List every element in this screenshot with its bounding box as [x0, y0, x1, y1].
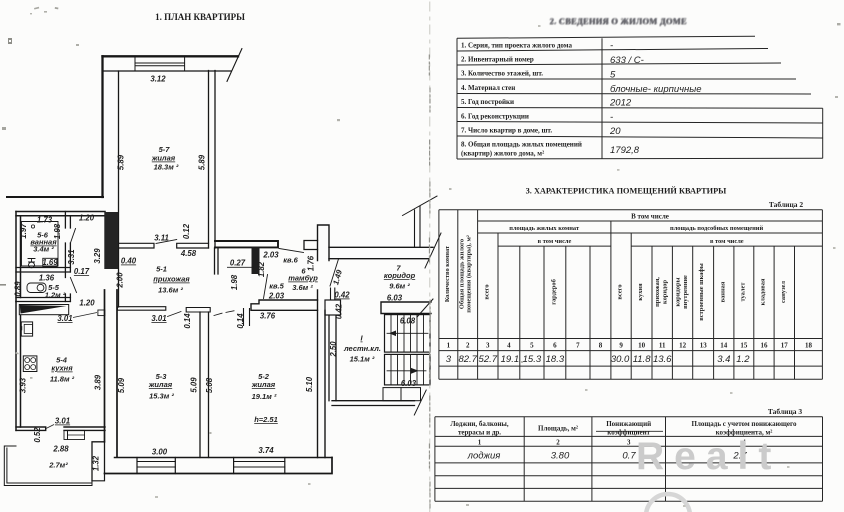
svg-text:кухня: кухня — [637, 283, 644, 301]
svg-text:1.2: 1.2 — [736, 354, 750, 365]
svg-text:2. Инвентарный номер: 2. Инвентарный номер — [461, 56, 534, 64]
svg-text:2. СВЕДЕНИЯ О ЖИЛОМ ДОМЕ: 2. СВЕДЕНИЯ О ЖИЛОМ ДОМЕ — [550, 17, 687, 26]
svg-text:(квартир) жилого дома, м²: (квартир) жилого дома, м² — [461, 150, 544, 158]
svg-text:7. Число квартир в доме, шт.: 7. Число квартир в доме, шт. — [461, 127, 552, 135]
svg-text:52.7: 52.7 — [479, 354, 498, 365]
bathroom block bottom wall — [16, 298, 70, 302]
svg-text:19.1: 19.1 — [501, 354, 520, 365]
svg-text:19.1м ²: 19.1м ² — [252, 392, 277, 401]
svg-text:2.7м²: 2.7м² — [48, 461, 68, 470]
svg-text:2: 2 — [556, 438, 560, 446]
svg-text:h=2.51: h=2.51 — [254, 415, 278, 424]
svg-text:5.09: 5.09 — [190, 377, 199, 393]
svg-text:6: 6 — [553, 342, 557, 350]
svg-text:гардероб: гардероб — [551, 279, 558, 305]
svg-text:14: 14 — [720, 342, 728, 350]
svg-text:1.20: 1.20 — [79, 299, 95, 308]
door knob circle bathroom — [31, 225, 34, 228]
svg-text:-: - — [610, 41, 613, 52]
svg-text:3.31: 3.31 — [67, 249, 76, 264]
svg-text:Площадь, м²: Площадь, м² — [538, 425, 578, 433]
svg-text:1.76: 1.76 — [307, 255, 316, 271]
balcony door threshold — [64, 430, 68, 439]
svg-text:0.40: 0.40 — [121, 257, 137, 266]
svg-text:туалет: туалет — [740, 282, 747, 302]
wall room 5-7 right (double) — [209, 71, 216, 249]
kitchen left wall — [16, 302, 21, 431]
svg-text:Таблица 2: Таблица 2 — [769, 200, 804, 209]
room 5-2 right wall — [318, 290, 326, 458]
svg-text:2.03: 2.03 — [268, 292, 285, 301]
hall bottom wall bar — [117, 307, 165, 311]
svg-text:6.08: 6.08 — [400, 317, 416, 326]
svg-text:2.50: 2.50 — [329, 341, 338, 358]
svg-text:11.8м ²: 11.8м ² — [50, 375, 75, 384]
bathroom right wall with door gaps — [65, 212, 70, 302]
staircase top wall band — [381, 302, 431, 314]
svg-text:5.89: 5.89 — [117, 154, 126, 170]
main bottom wall inner line — [115, 457, 333, 459]
svg-text:6.03: 6.03 — [387, 294, 403, 303]
stair flight 1 — [385, 315, 431, 353]
scan fold line — [429, 2, 431, 512]
svg-text:1.32: 1.32 — [92, 455, 101, 471]
svg-text:3.80: 3.80 — [551, 451, 570, 462]
table3 vertical lines — [434, 417, 436, 501]
kitchen stove — [23, 356, 37, 372]
svg-text:15.3: 15.3 — [523, 354, 542, 365]
svg-text:6. Год реконструкции: 6. Год реконструкции — [461, 113, 529, 121]
wall room 5-7 bottom with door gap — [119, 243, 209, 248]
svg-text:площадь жилых комнат: площадь жилых комнат — [509, 225, 580, 232]
svg-text:2.03: 2.03 — [262, 251, 279, 260]
door leaf wc 5-5 — [70, 278, 76, 293]
svg-text:1. Серия, тип проекта жилого д: 1. Серия, тип проекта жилого дома — [461, 42, 572, 50]
wall room 5-7 top outer — [103, 55, 239, 57]
svg-text:3.4м ²: 3.4м ² — [33, 245, 54, 254]
svg-text:прихожая,: прихожая, — [654, 277, 661, 307]
svg-text:помещения (квартиры), м²: помещения (квартиры), м² — [466, 235, 473, 313]
svg-text:15.1м ²: 15.1м ² — [350, 355, 375, 364]
break line staircase bottom right — [414, 390, 426, 415]
vent shaft black wedge — [19, 305, 68, 315]
door leader 5-3 — [168, 312, 182, 317]
svg-text:15.3м ²: 15.3м ² — [149, 392, 174, 401]
svg-text:2.88: 2.88 — [52, 445, 69, 454]
svg-text:прихожая: прихожая — [153, 275, 190, 284]
svg-text:1. ПЛАН КВАРТИРЫ: 1. ПЛАН КВАРТИРЫ — [155, 12, 245, 22]
door dashes to 5-2 — [214, 311, 234, 316]
table1 horizontal lines — [457, 36, 755, 38]
svg-text:1.36: 1.36 — [39, 274, 55, 283]
svg-text:3.4: 3.4 — [717, 354, 730, 365]
specks top left — [34, 7, 39, 10]
watermark circle arc — [646, 494, 690, 512]
svg-text:коридоры: коридоры — [675, 277, 682, 306]
svg-text:блочные- кирпичные: блочные- кирпичные — [610, 84, 702, 95]
svg-text:1.69: 1.69 — [42, 258, 58, 267]
svg-text:5-1: 5-1 — [156, 265, 167, 274]
table2 vertical lines — [438, 210, 440, 379]
svg-text:тамбур: тамбур — [288, 274, 318, 283]
kv.6 stub wall — [252, 247, 260, 274]
svg-text:кв.5: кв.5 — [269, 282, 284, 291]
strike through koefficient — [596, 430, 663, 432]
tambour bottom wall band 2.03 — [251, 300, 318, 310]
svg-text:1.73: 1.73 — [37, 216, 53, 225]
svg-text:30.0: 30.0 — [611, 354, 630, 365]
svg-text:кухня: кухня — [51, 364, 73, 373]
svg-text:0.42: 0.42 — [335, 303, 344, 319]
svg-text:8. Общая площадь жилых помещен: 8. Общая площадь жилых помещений — [461, 141, 582, 149]
svg-text:1: 1 — [447, 342, 451, 350]
svg-text:санузел: санузел — [780, 281, 787, 303]
svg-text:1: 1 — [478, 438, 482, 446]
svg-text:3.12: 3.12 — [150, 75, 166, 84]
svg-text:1.20: 1.20 — [79, 214, 95, 223]
svg-text:3.74: 3.74 — [258, 446, 274, 455]
svg-text:в том числе: в том числе — [538, 238, 572, 245]
break line corridor top — [403, 196, 438, 216]
tambour vertical wall — [318, 225, 330, 261]
toilet symbol — [28, 259, 35, 263]
svg-text:жилая: жилая — [151, 154, 176, 163]
svg-text:2.00: 2.00 — [116, 272, 125, 289]
T-wall cap between 5-3 and 5-2 — [186, 308, 210, 313]
svg-text:0.14: 0.14 — [236, 313, 245, 329]
svg-text:0.89: 0.89 — [14, 281, 23, 297]
svg-text:5: 5 — [610, 70, 616, 81]
svg-text:3: 3 — [486, 342, 490, 350]
wall between bathroom and wc 5-5 — [16, 268, 70, 273]
svg-text:Общая площадь жилого: Общая площадь жилого — [459, 239, 466, 309]
svg-text:0.27: 0.27 — [230, 259, 246, 268]
center pier — [175, 458, 233, 474]
break line top right — [227, 49, 242, 82]
svg-text:1792,8: 1792,8 — [610, 145, 640, 156]
svg-text:3.00: 3.00 — [152, 448, 168, 457]
svg-text:633 / С-: 633 / С- — [610, 55, 644, 66]
svg-text:3.6м ²: 3.6м ² — [292, 283, 313, 292]
svg-text:террасы и др.: террасы и др. — [458, 429, 501, 437]
svg-text:Площадь с учетом понижающего: Площадь с учетом понижающего — [692, 420, 797, 428]
svg-text:кладовая: кладовая — [760, 278, 767, 305]
staircase left wall — [329, 316, 336, 401]
door leaf kv.6 — [279, 249, 304, 253]
svg-text:встроенные шкафы: встроенные шкафы — [698, 263, 705, 321]
svg-text:13.6м ²: 13.6м ² — [158, 286, 183, 295]
thick wall hallway left (upper) — [104, 212, 118, 269]
svg-text:11: 11 — [659, 342, 666, 350]
svg-text:3.11: 3.11 — [154, 234, 169, 243]
svg-text:18.3м ²: 18.3м ² — [154, 163, 179, 172]
svg-text:Realt: Realt — [636, 435, 781, 478]
svg-text:Количество комнат: Количество комнат — [444, 245, 451, 302]
svg-text:11.8: 11.8 — [633, 354, 652, 365]
svg-text:-: - — [610, 112, 613, 123]
stair landing rects — [383, 388, 401, 401]
window 3.00 — [137, 462, 175, 468]
table1 vertical lines — [456, 38, 458, 159]
stub 0.42 — [325, 300, 341, 315]
wall room 5-7 top inner — [103, 70, 231, 72]
svg-text:кв.6: кв.6 — [283, 256, 298, 265]
svg-text:0.17: 0.17 — [74, 267, 90, 276]
svg-text:3.89: 3.89 — [94, 374, 103, 390]
svg-text:5: 5 — [530, 342, 534, 350]
svg-text:3.29: 3.29 — [93, 248, 102, 264]
wall piece right of 5-2 door — [244, 309, 250, 326]
bathroom block left wall — [16, 212, 21, 302]
break line staircase top right — [417, 299, 433, 317]
break line corridor right — [425, 233, 441, 268]
hall right wall — [215, 248, 219, 274]
svg-text:15: 15 — [740, 342, 748, 350]
entry wall band kv.6 — [215, 241, 278, 247]
svg-text:10: 10 — [638, 342, 646, 350]
svg-text:площадь подсобных помещений: площадь подсобных помещений — [670, 225, 763, 232]
door leaf tambour — [330, 259, 339, 286]
svg-text:3: 3 — [446, 354, 452, 365]
door leaf bathroom — [70, 229, 75, 244]
bathtub outline — [22, 222, 59, 267]
box 1.69 — [43, 258, 57, 266]
svg-text:13.6: 13.6 — [653, 354, 672, 365]
stair flight 2 — [385, 354, 431, 385]
svg-text:3.01: 3.01 — [151, 314, 166, 323]
svg-text:лестн.кл.: лестн.кл. — [343, 344, 381, 353]
svg-text:18.3: 18.3 — [546, 354, 565, 365]
svg-text:0.7: 0.7 — [622, 451, 636, 462]
svg-text:12: 12 — [679, 342, 687, 350]
svg-text:8: 8 — [599, 342, 603, 350]
svg-text:2012: 2012 — [609, 98, 632, 109]
svg-text:9.6м ²: 9.6м ² — [389, 282, 410, 291]
svg-text:всего: всего — [484, 284, 491, 299]
svg-text:0.42: 0.42 — [334, 291, 350, 300]
wall piece corridor-stairs door jamb — [331, 288, 335, 300]
svg-text:3. Количество этажей, шт.: 3. Количество этажей, шт. — [461, 70, 543, 78]
svg-text:ванная: ванная — [720, 281, 727, 302]
svg-text:внутренние: внутренние — [682, 275, 689, 309]
corner block B — [92, 474, 105, 481]
svg-text:9: 9 — [619, 342, 623, 350]
door leaf room 5-7 — [156, 240, 177, 244]
step to balcony column — [92, 442, 105, 481]
wall step to bathroom block — [7, 196, 103, 198]
kitchen bottom wall with balcony door gap — [16, 427, 105, 430]
main bottom wall outer line — [105, 458, 333, 474]
svg-text:Понижающий: Понижающий — [606, 420, 651, 428]
svg-text:1.2м ²: 1.2м ² — [45, 291, 66, 300]
svg-text:4: 4 — [507, 342, 511, 350]
svg-text:5. Год постройки: 5. Год постройки — [461, 98, 514, 106]
svg-text:0.14: 0.14 — [183, 313, 192, 329]
svg-text:коридор: коридор — [384, 271, 416, 280]
svg-text:Таблица 3: Таблица 3 — [768, 407, 803, 416]
svg-text:в том числе: в том числе — [710, 238, 744, 245]
svg-text:5.10: 5.10 — [305, 376, 314, 392]
leader 3.01 kitchen — [46, 425, 54, 429]
svg-text:16: 16 — [761, 342, 769, 350]
svg-text:6.03: 6.03 — [401, 379, 417, 388]
svg-text:жилая: жилая — [148, 380, 173, 389]
svg-text:жилая: жилая — [251, 380, 276, 389]
svg-text:20: 20 — [609, 126, 621, 137]
svg-text:0.12: 0.12 — [182, 223, 191, 239]
wall room 5-7 left outer — [101, 56, 103, 197]
svg-text:3.01: 3.01 — [55, 417, 70, 426]
wall room 5-7 left inner — [118, 71, 120, 307]
svg-text:0.52: 0.52 — [33, 427, 42, 443]
svg-text:5.08: 5.08 — [205, 377, 214, 393]
cross wall left stub — [304, 241, 318, 250]
bathroom block top wall — [16, 212, 105, 216]
svg-text:2: 2 — [466, 342, 470, 350]
window 3.74 — [234, 462, 285, 468]
svg-text:7: 7 — [576, 342, 580, 350]
svg-text:3.01: 3.01 — [57, 314, 72, 323]
svg-text:1.82: 1.82 — [257, 261, 266, 277]
jamb rect kitchen wall top — [98, 310, 105, 316]
svg-text:Лоджии, балконы,: Лоджии, балконы, — [450, 420, 508, 428]
svg-text:82.7: 82.7 — [458, 354, 477, 365]
svg-text:3.93: 3.93 — [19, 377, 28, 393]
svg-text:4. Материал стен: 4. Материал стен — [461, 84, 515, 92]
window W1 room 5-7 — [135, 56, 185, 71]
svg-text:5.89: 5.89 — [198, 154, 207, 170]
corridor top wall band — [329, 247, 433, 258]
svg-text:3: 3 — [627, 438, 631, 446]
svg-text:лоджия: лоджия — [467, 451, 501, 462]
door leaf kv.5 — [264, 275, 268, 299]
bottom pier A divider — [136, 458, 138, 474]
svg-text:17: 17 — [781, 342, 789, 350]
balcony outline — [4, 446, 92, 486]
svg-text:1.98: 1.98 — [230, 274, 239, 290]
leader 3.01 hall — [73, 313, 97, 318]
kitchen sink unit — [21, 322, 32, 336]
table2 outer and header lines — [439, 209, 823, 211]
staircase bottom wall band — [332, 401, 415, 406]
svg-text:4.58: 4.58 — [180, 249, 197, 258]
svg-text:5.09: 5.09 — [117, 377, 126, 393]
svg-text:13: 13 — [700, 342, 708, 350]
wall between 5-3 and 5-2 (stem) — [200, 312, 209, 458]
svg-text:всего: всего — [617, 284, 624, 299]
table3 horizontal lines — [435, 416, 823, 418]
svg-text:1.97: 1.97 — [19, 223, 28, 239]
right pier — [284, 458, 286, 474]
corridor wall vertical up — [415, 206, 421, 247]
svg-text:3. ХАРАКТЕРИСТИКА ПОМЕЩЕНИЙ КВ: 3. ХАРАКТЕРИСТИКА ПОМЕЩЕНИЙ КВАРТИРЫ — [526, 187, 727, 196]
thick wall kitchen/5-3 (lower) — [105, 290, 118, 457]
svg-text:3.76: 3.76 — [260, 312, 276, 321]
svg-text:В том числе: В том числе — [631, 213, 669, 221]
washbasin 5-5 — [27, 283, 46, 293]
svg-text:коридор: коридор — [662, 280, 669, 304]
svg-text:18: 18 — [805, 342, 813, 350]
